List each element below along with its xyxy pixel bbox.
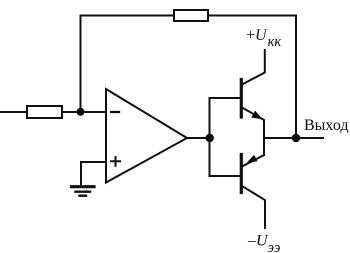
svg-text:–Uээ: –Uээ: [247, 232, 280, 253]
svg-text:+Uкк: +Uкк: [246, 27, 281, 50]
svg-text:Выход: Выход: [304, 117, 349, 134]
